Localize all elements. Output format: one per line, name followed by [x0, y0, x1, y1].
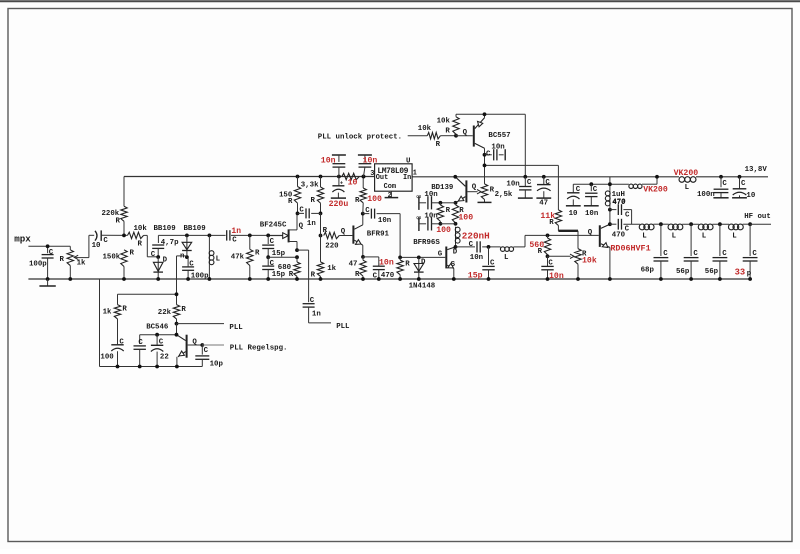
wire to PLL — [309, 322, 331, 324]
svg-text:C: C — [416, 216, 424, 220]
capacitor C 22 electrolytic — [155, 333, 159, 337]
svg-text:33: 33 — [735, 267, 746, 277]
regulator U LM78L09 — [375, 164, 413, 191]
capacitor C 470 with 10n emitter bypass — [363, 256, 379, 258]
svg-text:BB109: BB109 — [154, 225, 176, 233]
svg-text:1n: 1n — [312, 310, 321, 318]
svg-text:S: S — [451, 261, 456, 269]
svg-text:R: R — [538, 248, 543, 256]
svg-text:10: 10 — [746, 192, 755, 200]
svg-text:1n: 1n — [231, 227, 241, 236]
capacitor C 15p upper — [267, 236, 269, 244]
svg-text:C: C — [527, 179, 532, 187]
svg-text:BFR91: BFR91 — [367, 231, 390, 239]
svg-text:L: L — [685, 184, 690, 192]
resistor 11k — [555, 210, 561, 226]
svg-text:C: C — [365, 207, 370, 215]
svg-text:4,7p: 4,7p — [161, 239, 179, 247]
svg-text:470: 470 — [612, 199, 626, 207]
svg-text:100: 100 — [100, 354, 114, 362]
node BC546 base — [200, 343, 204, 347]
capacitor C 10n collector out — [363, 213, 370, 215]
capacitor C 33p — [749, 224, 751, 256]
svg-text:Q: Q — [341, 228, 346, 236]
svg-text:R: R — [323, 227, 328, 235]
svg-text:C: C — [138, 339, 143, 347]
wire 11k to pot thick — [557, 226, 559, 231]
svg-text:10n: 10n — [491, 144, 504, 152]
svg-text:C: C — [576, 186, 581, 194]
svg-text:1uH: 1uH — [612, 191, 625, 199]
wire emitter to caps — [440, 202, 455, 204]
potentiometer R 1k — [69, 246, 71, 250]
svg-text:Q: Q — [588, 229, 593, 237]
svg-text:RD06HVF1: RD06HVF1 — [610, 243, 650, 253]
svg-text:56p: 56p — [705, 268, 719, 276]
capacitor C 68p — [660, 224, 662, 256]
capacitor C 10 coupling — [95, 231, 97, 241]
ground bus — [28, 278, 750, 280]
resistor 150k — [121, 250, 127, 267]
svg-text:10n: 10n — [506, 180, 519, 188]
node gate divider — [266, 255, 270, 259]
svg-text:+: + — [340, 180, 343, 186]
svg-text:R: R — [355, 197, 360, 205]
svg-text:1k: 1k — [77, 260, 86, 268]
wire 13.8V rail LM78L09 In to right — [412, 176, 679, 178]
wire collector caps — [140, 334, 177, 336]
svg-text:C: C — [741, 180, 746, 188]
svg-text:L: L — [732, 233, 737, 241]
resistor 560 — [546, 234, 550, 238]
svg-text:BF245C: BF245C — [260, 221, 287, 229]
wire bias to 11k — [557, 165, 559, 210]
svg-text:10n: 10n — [424, 191, 437, 199]
svg-text:C: C — [693, 250, 698, 258]
wire PLL tap — [297, 249, 309, 251]
svg-text:R: R — [405, 261, 410, 269]
wire BC557 collector down — [484, 148, 486, 184]
svg-text:R: R — [60, 256, 65, 264]
wire up to gate line — [524, 235, 526, 247]
svg-text:C: C — [103, 237, 108, 245]
svg-text:220u: 220u — [329, 200, 349, 209]
svg-text:47k: 47k — [231, 254, 245, 262]
svg-text:C: C — [270, 238, 275, 246]
resistor 3,3k — [319, 175, 323, 179]
svg-text:C: C — [752, 250, 757, 258]
svg-text:2,5k: 2,5k — [495, 191, 513, 199]
svg-text:C: C — [159, 338, 164, 346]
svg-text:R: R — [255, 250, 260, 258]
resistor 47 emitter — [362, 257, 364, 260]
node BFR91 collector — [361, 212, 365, 216]
varactor diode D BB109 — [153, 262, 163, 271]
node emitter rail junction — [523, 175, 527, 179]
svg-text:3,3k: 3,3k — [301, 181, 319, 189]
svg-text:C: C — [49, 249, 54, 257]
node 560 bottom — [546, 254, 550, 258]
capacitor C 1n PLL — [303, 303, 315, 305]
wire tuning voltage feed — [177, 255, 187, 257]
capacitor C 1n interstage — [296, 212, 300, 216]
svg-text:220: 220 — [325, 242, 339, 250]
node 15p — [487, 245, 491, 249]
svg-text:C: C — [593, 186, 598, 194]
resistor 220k — [123, 177, 125, 207]
svg-text:15p: 15p — [272, 271, 286, 279]
potentiometer 2,5k — [481, 184, 487, 200]
transistor BC557 — [473, 126, 475, 147]
wire PLL Regelspg — [202, 344, 224, 346]
capacitor C 100p tank — [182, 266, 194, 268]
svg-text:C: C — [270, 260, 275, 268]
svg-text:BB109: BB109 — [184, 225, 206, 233]
svg-text:Q: Q — [192, 339, 197, 347]
svg-text:10n: 10n — [585, 210, 598, 218]
wire mpx input — [28, 245, 70, 247]
svg-text:L: L — [672, 233, 677, 241]
svg-text:D: D — [163, 257, 168, 265]
svg-text:10n: 10n — [424, 212, 437, 220]
capacitor C 10n rail decoupling — [524, 177, 526, 186]
svg-text:10: 10 — [569, 210, 578, 218]
wire cap filter top — [118, 293, 177, 295]
svg-text:BFR96S: BFR96S — [413, 239, 440, 247]
resistor 10 series — [342, 173, 360, 179]
wire wiper to pot — [548, 255, 571, 257]
resistor 100 collector load — [362, 175, 366, 179]
svg-text:R: R — [122, 306, 127, 314]
svg-text:VK200: VK200 — [643, 186, 668, 195]
svg-text:C: C — [299, 207, 304, 215]
resistor 1k bias — [317, 262, 323, 277]
capacitor C 100n — [719, 175, 723, 179]
svg-text:56p: 56p — [676, 268, 690, 276]
svg-text:13,8V: 13,8V — [745, 166, 768, 174]
svg-text:15p: 15p — [468, 272, 483, 281]
wire pot wiper riser — [76, 257, 89, 259]
svg-text:1n: 1n — [307, 220, 316, 228]
varactor diode BB109 second — [185, 234, 189, 238]
svg-text:R: R — [289, 271, 294, 279]
capacitor C 1n coupling — [226, 230, 228, 240]
capacitor C 10 electrolytic decoupling — [572, 184, 574, 192]
inductor L3 ladder — [698, 224, 704, 230]
svg-text:C: C — [545, 179, 550, 187]
capacitor C 100p input — [47, 246, 49, 253]
wire tank line — [158, 234, 225, 236]
svg-text:R: R — [446, 207, 451, 215]
svg-text:Q: Q — [463, 129, 468, 137]
svg-text:C: C — [232, 236, 237, 244]
node 220k/150k — [122, 234, 126, 238]
svg-text:D: D — [421, 258, 426, 266]
node BD139 emitter — [454, 201, 458, 205]
resistor R 100 A — [439, 201, 443, 205]
svg-text:1N4148: 1N4148 — [409, 283, 436, 291]
svg-text:47: 47 — [539, 200, 548, 208]
node 33p — [748, 222, 752, 226]
inductor 1uH 470 — [605, 191, 610, 196]
node drain — [454, 245, 458, 249]
wire 10k step down — [144, 234, 148, 236]
resistor 220 base — [324, 232, 340, 238]
svg-text:R: R — [311, 271, 316, 279]
svg-text:PLL unlock protect.: PLL unlock protect. — [318, 134, 402, 142]
capacitor C 15p output — [488, 247, 490, 265]
node coil top — [439, 222, 443, 226]
svg-text:PLL: PLL — [229, 324, 243, 332]
node BC557 base — [454, 134, 458, 138]
svg-text:BC557: BC557 — [488, 132, 510, 140]
svg-text:R: R — [311, 197, 316, 205]
svg-text:3: 3 — [370, 170, 374, 178]
node 68p — [653, 223, 668, 225]
svg-text:R: R — [288, 198, 293, 206]
svg-text:22: 22 — [160, 354, 169, 362]
svg-text:Out: Out — [376, 174, 388, 182]
capacitor C 10n wiper — [547, 256, 549, 266]
choke VK200 lower — [629, 184, 633, 188]
wire drain output line — [456, 246, 476, 248]
resistor 150 — [296, 175, 300, 179]
capacitor C 100 electrolytic — [111, 344, 123, 346]
svg-text:R: R — [138, 241, 143, 249]
svg-text:C: C — [469, 241, 474, 249]
wire drain sub-rail — [573, 183, 629, 185]
svg-text:L: L — [642, 233, 647, 241]
node drain RD06 — [609, 210, 611, 225]
capacitor C 470 lower — [610, 223, 617, 225]
svg-text:C: C — [189, 261, 194, 269]
svg-text:100: 100 — [436, 226, 451, 235]
wire bottom rail — [100, 366, 203, 368]
svg-text:VK200: VK200 — [674, 169, 699, 178]
svg-text:2: 2 — [388, 192, 392, 200]
svg-text:10n: 10n — [379, 259, 394, 268]
svg-text:In: In — [403, 174, 411, 182]
svg-text:10n: 10n — [549, 272, 564, 281]
svg-text:Q: Q — [472, 183, 477, 191]
svg-text:10k: 10k — [134, 225, 148, 233]
node 22k collector — [175, 322, 179, 326]
capacitor C 56p first — [690, 224, 692, 256]
svg-text:R: R — [355, 271, 360, 279]
resistor 10k horizontal — [408, 135, 428, 137]
inductor L tank — [208, 234, 212, 238]
svg-text:10: 10 — [348, 178, 358, 187]
svg-text:C: C — [722, 180, 727, 188]
resistor 680 — [296, 257, 298, 262]
svg-text:100: 100 — [458, 213, 473, 222]
svg-text:C: C — [490, 260, 495, 268]
svg-text:1: 1 — [413, 170, 417, 178]
svg-text:C: C — [625, 211, 630, 219]
svg-text:10n: 10n — [470, 254, 483, 262]
diode 1N4148 — [417, 256, 421, 260]
inductor L2 ladder — [668, 224, 674, 230]
wire BC557 collector bias line — [485, 164, 558, 166]
svg-text:Q: Q — [299, 222, 304, 230]
node 220/1k — [319, 234, 323, 238]
wire source to divider — [268, 256, 297, 258]
wire coupling cap to 220k node — [102, 234, 128, 236]
svg-text:R: R — [445, 127, 450, 135]
capacitor C 10n series — [476, 241, 478, 252]
node source — [295, 248, 299, 252]
capacitor C 10n decoupling — [589, 182, 593, 186]
svg-text:470: 470 — [612, 232, 626, 240]
svg-text:U: U — [406, 158, 410, 166]
svg-text:C: C — [151, 251, 156, 259]
svg-text:10: 10 — [92, 242, 101, 250]
svg-text:C: C — [310, 297, 315, 305]
svg-text:10k: 10k — [582, 256, 597, 266]
svg-text:R: R — [436, 141, 441, 149]
svg-text:L: L — [702, 233, 707, 241]
capacitor C 220u — [338, 177, 340, 186]
top page edge line — [0, 0, 800, 2]
svg-text:R: R — [116, 218, 121, 226]
inductor L4 ladder — [728, 224, 734, 230]
svg-text:R: R — [130, 250, 135, 258]
svg-text:mpx: mpx — [14, 234, 31, 245]
choke VK200 upper — [679, 177, 685, 183]
capacitor C 470 upper — [610, 209, 617, 211]
svg-text:PLL Regelspg.: PLL Regelspg. — [230, 345, 288, 353]
svg-text:L: L — [216, 256, 221, 264]
capacitor C 4,7p — [157, 235, 159, 243]
capacitor C 47 electrolytic — [542, 175, 546, 179]
node BFR91 emitter — [361, 255, 365, 259]
capacitor C 10n B — [418, 217, 420, 231]
capacitor C filter — [139, 335, 141, 344]
capacitor C 10 electrolytic rail — [738, 175, 742, 179]
inductor 220nH — [455, 227, 460, 232]
pin 2 ground stub — [390, 191, 392, 197]
transistor BFR91 — [352, 226, 354, 244]
svg-text:100p: 100p — [29, 261, 47, 269]
svg-text:470: 470 — [381, 272, 395, 280]
capacitor C 10n rail 2 — [362, 175, 366, 179]
svg-text:C: C — [548, 260, 553, 268]
wire bottom-left vertical from bus — [99, 279, 101, 367]
svg-text:10p: 10p — [210, 361, 224, 369]
svg-text:100: 100 — [367, 195, 382, 204]
svg-text:C: C — [373, 272, 378, 280]
svg-text:HF out: HF out — [744, 213, 771, 221]
svg-text:22k: 22k — [158, 309, 172, 317]
svg-text:C: C — [119, 339, 124, 347]
capacitor C 10p — [201, 345, 203, 355]
potentiometer 10k — [577, 231, 579, 249]
inductor L interstage — [500, 247, 505, 252]
svg-text:G: G — [438, 251, 443, 259]
resistor R 100 B — [452, 205, 458, 223]
svg-text:C: C — [663, 250, 668, 258]
wire vertical emitter line to 13.8V rail — [524, 114, 526, 177]
svg-text:1k: 1k — [327, 265, 336, 273]
svg-text:10k: 10k — [418, 125, 432, 133]
resistor R gate bias — [399, 214, 401, 258]
resistor 10k series — [128, 232, 144, 238]
inductor L1 ladder — [639, 224, 645, 230]
svg-text:68p: 68p — [641, 267, 655, 275]
resistor 10k pullup — [455, 114, 457, 117]
svg-text:150k: 150k — [103, 254, 121, 262]
svg-text:10n: 10n — [378, 217, 391, 225]
svg-text:L: L — [504, 254, 509, 262]
svg-text:47: 47 — [349, 260, 358, 268]
node bias line — [483, 164, 487, 168]
wire HF out — [750, 223, 771, 225]
node 56p second — [718, 222, 722, 226]
svg-text:100p: 100p — [191, 272, 209, 280]
wire 9V rail from 220k to LM78L09 Out — [124, 176, 375, 178]
svg-text:C: C — [204, 347, 209, 355]
svg-text:R: R — [549, 219, 554, 227]
mosfet RD06HVF1 — [599, 225, 601, 247]
svg-text:BC546: BC546 — [146, 324, 169, 332]
capacitor C 56p second — [719, 224, 721, 256]
capacitor C 10n rail 1 — [337, 175, 341, 179]
node 56p first — [689, 222, 693, 226]
capacitor C 10n BC557 — [483, 153, 487, 157]
svg-text:R: R — [181, 306, 186, 314]
capacitor C 10n A — [418, 196, 420, 210]
wire BC557 emitter top line — [456, 113, 525, 115]
svg-text:C: C — [722, 250, 727, 258]
resistor 47k — [248, 234, 252, 238]
resistor 22k — [176, 294, 178, 304]
resistor 1k lower — [117, 294, 119, 304]
wire to PLL — [177, 323, 225, 325]
svg-text:220nH: 220nH — [462, 230, 490, 241]
svg-text:p: p — [747, 270, 752, 278]
svg-text:PLL: PLL — [336, 323, 350, 331]
svg-text:C: C — [486, 150, 491, 158]
svg-text:Com: Com — [384, 183, 396, 191]
svg-text:10n: 10n — [321, 157, 336, 166]
svg-text:C: C — [625, 226, 630, 234]
svg-text:1k: 1k — [103, 308, 112, 316]
capacitor C 15p lower — [262, 265, 274, 267]
ground — [47, 279, 49, 286]
svg-text:10k: 10k — [437, 117, 451, 125]
svg-text:D: D — [453, 249, 458, 257]
svg-text:100n: 100n — [697, 191, 715, 199]
svg-text:C: C — [416, 195, 424, 199]
